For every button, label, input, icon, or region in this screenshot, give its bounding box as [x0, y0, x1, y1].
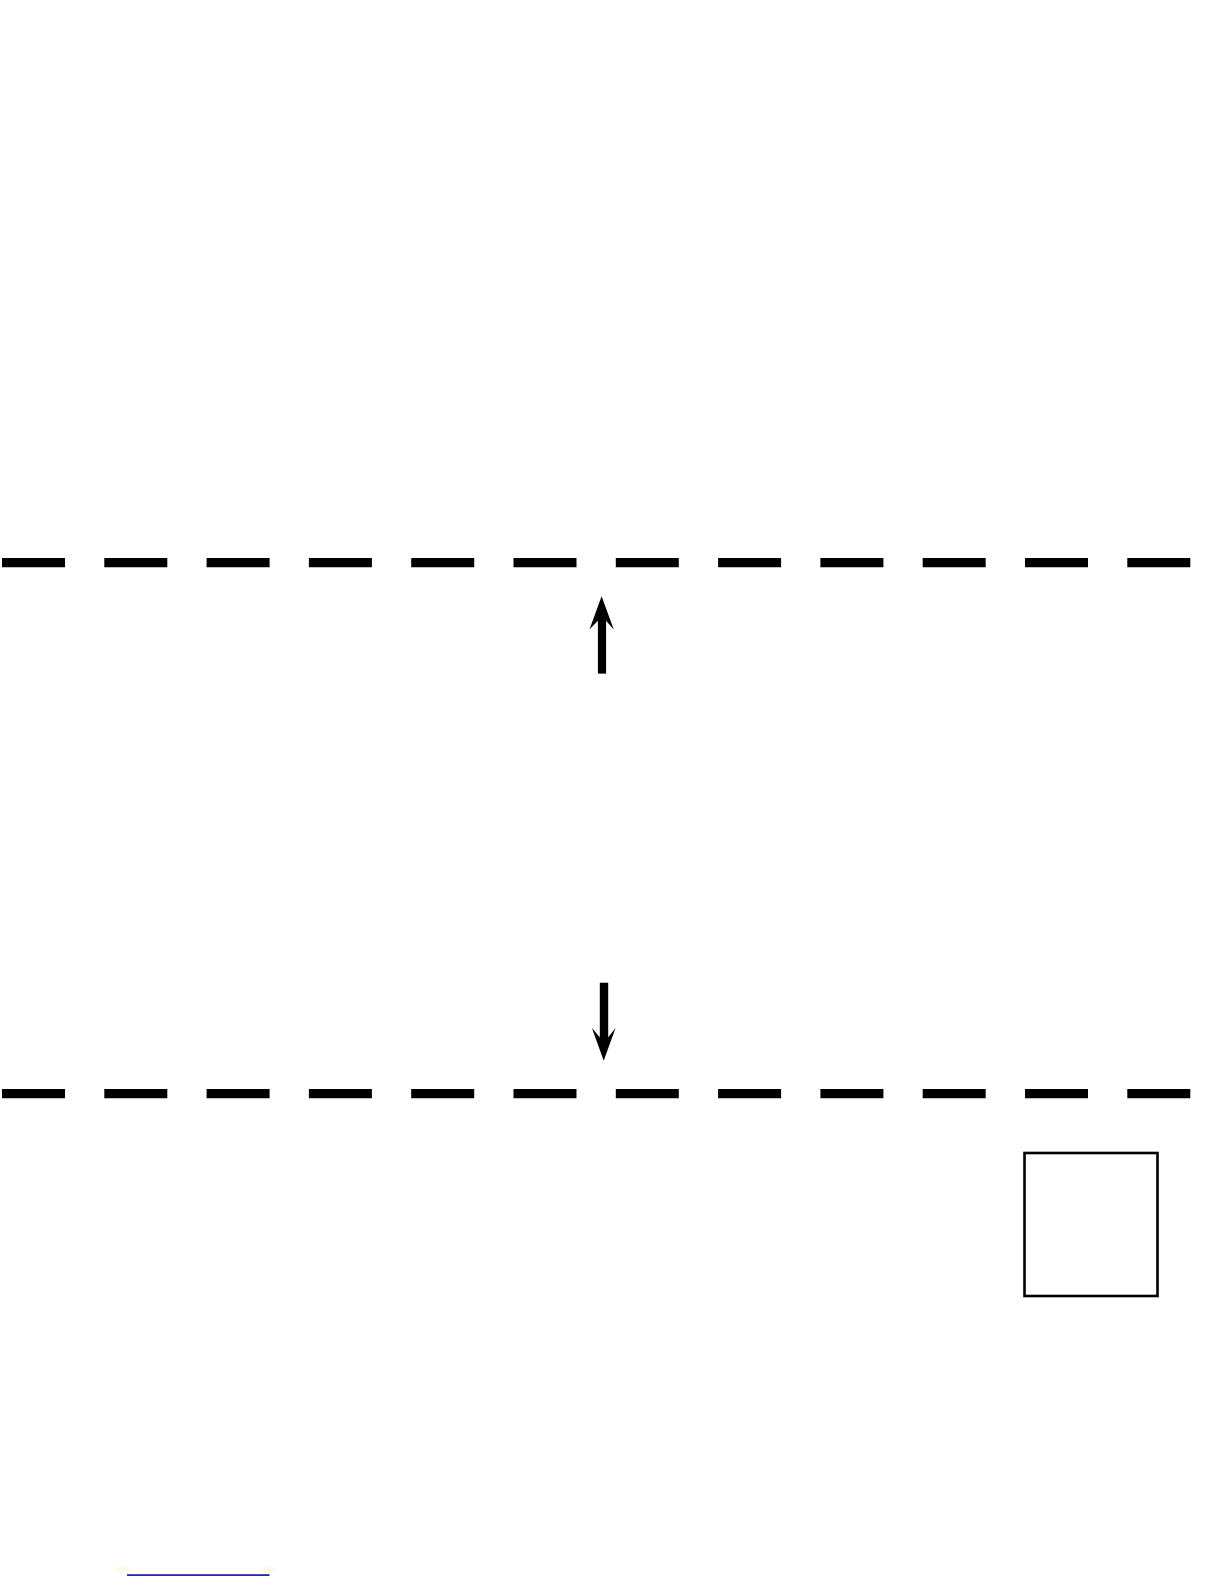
- hyperlink underline: [127, 1574, 270, 1576]
- down arrow: [592, 983, 616, 1061]
- faint smudge left of hyperlink underline: [115, 1566, 131, 1574]
- bottom fold line (dashed rule): [2, 1089, 1192, 1098]
- faint smudge right of hyperlink underline: [260, 1566, 276, 1574]
- top fold line (dashed rule): [2, 558, 1192, 567]
- up arrow: [590, 596, 614, 673]
- stamp box: [1025, 1153, 1158, 1296]
